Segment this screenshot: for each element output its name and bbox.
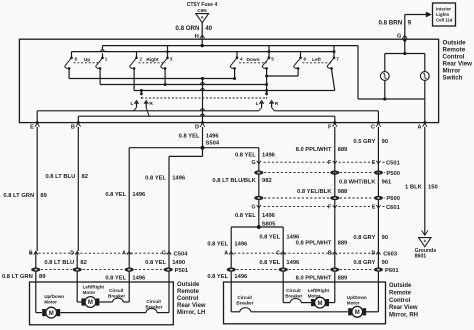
switch Right contact 3 [167,46,169,57]
svg-text:0.8 YEL: 0.8 YEL [235,213,256,219]
svg-text:0.8 BRN: 0.8 BRN [378,20,402,27]
svg-text:961: 961 [382,180,392,186]
svg-text:0.8 YEL: 0.8 YEL [105,275,126,281]
svg-text:Circuit: Circuit [109,288,124,293]
wires C504 to P501 [35,251,37,282]
svg-text:P601: P601 [385,268,399,274]
svg-text:1496: 1496 [234,274,248,280]
svg-text:Motor: Motor [347,301,360,306]
svg-text:B: B [71,125,75,131]
connector row C504 pins B D A C [34,251,38,254]
switch Left actuator dashes [303,62,333,64]
svg-text:1496: 1496 [234,241,248,247]
svg-text:5: 5 [271,57,274,62]
svg-text:1496: 1496 [286,234,300,240]
LH wire D to left/right motor [76,282,78,302]
svg-text:Remote: Remote [177,289,200,295]
svg-text:9: 9 [408,20,412,27]
svg-text:8601: 8601 [415,254,427,260]
svg-text:0.8 YEL: 0.8 YEL [179,133,200,139]
svg-text:Remote: Remote [389,291,412,297]
svg-text:C504: C504 [174,251,189,257]
selector 1 actuator [140,91,142,94]
wire F column [334,116,336,122]
svg-text:89: 89 [40,193,47,199]
splice S504 [201,146,205,150]
wire S805 left branch to RH A [231,226,259,228]
svg-text:Right: Right [146,57,159,63]
selector 2 contact stubs [261,104,263,108]
inline connector row P500 [254,171,263,175]
outside remote control rear view mirror switch box [19,39,438,122]
svg-text:Outside: Outside [443,39,467,46]
svg-text:Control: Control [177,296,199,302]
power bus lower [72,51,335,53]
svg-text:1 BLK: 1 BLK [405,185,423,191]
svg-text:L: L [130,101,133,107]
svg-text:0.8 YEL: 0.8 YEL [235,152,256,158]
wire D column (common output) [202,79,204,123]
svg-text:R: R [275,101,279,107]
svg-text:0.8 YEL: 0.8 YEL [259,260,280,266]
svg-text:Lights: Lights [436,12,450,17]
svg-text:82: 82 [82,174,88,180]
wire 0.8 BRN 9 to interior lights [405,14,426,16]
selector actuator link dashes [141,97,266,99]
svg-text:Control: Control [443,53,465,60]
svg-text:G: G [397,33,401,39]
wire Left-left arm jog to selector column [297,68,299,76]
wire S504 right branch to roof harness [203,147,259,149]
svg-text:Mirror, LH: Mirror, LH [177,310,205,316]
svg-text:1496: 1496 [262,152,276,158]
wires C603 to P601 [230,251,232,282]
illumination lamp right [424,54,426,72]
svg-text:3: 3 [170,57,173,62]
svg-text:P501: P501 [175,268,189,274]
wire D to splice S504 0.8 YEL 1496 [202,127,204,148]
selector 2 actuator (down-right arm column) [266,68,268,93]
svg-text:Mirror: Mirror [443,67,461,74]
svg-text:F: F [328,125,332,131]
svg-text:L: L [256,101,259,107]
svg-text:Left/Right: Left/Right [308,288,330,293]
svg-text:Rear View: Rear View [443,60,473,67]
svg-text:G: G [252,205,256,211]
svg-text:Rear View: Rear View [389,305,418,311]
svg-text:7: 7 [336,57,339,62]
svg-text:0.8 LT BLU: 0.8 LT BLU [45,174,75,180]
svg-text:0.8 GRY: 0.8 GRY [353,235,375,241]
svg-text:89: 89 [39,274,46,280]
LH wire breaker 2 to pin C [168,282,170,313]
wire B column [77,116,79,122]
wire Down-left arm riser [234,68,236,78]
splice S805 [257,225,261,229]
svg-text:Cell 114: Cell 114 [436,17,453,22]
svg-text:G: G [252,160,256,166]
LH wire motor to breaker 2 [60,312,146,314]
svg-text:M: M [318,301,323,307]
arrow into interior lights box [426,12,432,18]
svg-text:E: E [372,205,376,211]
wire B to C504-D 0.8 LT BLU 82 [77,127,79,251]
svg-text:8.0 PPL/WHT: 8.0 PPL/WHT [296,275,332,281]
wire Right-left arm to bus L3 [133,68,135,90]
svg-text:Circuit: Circuit [146,299,161,304]
svg-text:0.8 YEL: 0.8 YEL [105,192,126,198]
switch Up actuator dashes [74,62,101,64]
switch Up contact 8 [71,52,73,57]
LH wire motor to breaker 1 [99,301,112,303]
svg-text:0.8 WHT/BLK: 0.8 WHT/BLK [339,180,376,186]
svg-text:C501: C501 [386,160,401,166]
wire S805 right branch to RH C [259,226,283,228]
svg-text:6: 6 [304,57,307,62]
wire A to ground 1 BLK 150 [424,127,426,236]
svg-text:1496: 1496 [206,133,220,139]
wire F chain to RH 8.0 PPL/WHT 889 [334,127,336,251]
wire S504 down jog to C504-C [202,148,204,157]
bus L116 from B to F output [78,115,335,117]
svg-text:A: A [201,14,204,19]
lamp top rail from G [404,40,406,54]
switch box bottom pins E B D F C A [35,123,40,126]
svg-text:Down: Down [246,57,259,63]
LH wire breaker 1 to pin A [128,282,130,302]
svg-text:1496: 1496 [132,192,146,198]
wire A column (ground return) [424,99,426,123]
svg-text:0.8 YEL: 0.8 YEL [145,260,166,266]
svg-text:0.8 PPL/WHT: 0.8 PPL/WHT [296,241,332,247]
wire E column [36,111,38,123]
selector 1 contacts L R [134,101,138,104]
svg-text:S504: S504 [206,141,220,147]
svg-text:Circuit: Circuit [237,295,252,300]
svg-text:C601: C601 [386,205,401,211]
svg-text:4: 4 [240,57,243,62]
interior lights cell 114 box [433,3,456,26]
switch Up contact 1 [102,46,104,50]
bus L2 [100,84,267,86]
svg-text:82: 82 [80,260,86,266]
svg-text:0.5 GRY: 0.5 GRY [353,139,375,145]
switch Left contact 7 [333,46,335,57]
wire Up-left arm to bus L1 [68,68,70,78]
svg-text:Mirror, RH: Mirror, RH [389,312,418,318]
wire C column [377,111,379,123]
svg-text:1: 1 [105,57,108,62]
svg-text:0.8 GRY: 0.8 GRY [353,260,375,266]
svg-text:0.8 YEL: 0.8 YEL [207,241,228,247]
connector row C603 pins A C B D [229,251,233,254]
wire 0.8 ORN 40 from fuse to switch [201,22,203,45]
svg-text:R: R [149,101,153,107]
inline connector row P601 [227,268,236,272]
svg-text:988: 988 [338,189,348,195]
bus L1 common [69,78,235,80]
inline connector row P501 [31,268,40,272]
svg-text:0.8 YEL: 0.8 YEL [259,234,280,240]
wire C chain to RH GRY 90 [377,127,379,251]
svg-text:0.8 YEL: 0.8 YEL [145,176,166,182]
svg-text:90: 90 [382,235,388,241]
svg-text:1496: 1496 [172,176,186,182]
svg-text:Breaker: Breaker [285,293,302,298]
illumination feed riser [357,46,359,99]
svg-text:Rear View: Rear View [177,303,206,309]
svg-text:Outside: Outside [389,283,412,289]
svg-text:Breaker: Breaker [236,301,253,306]
svg-text:Remote: Remote [443,46,466,53]
svg-text:0.8 ORN: 0.8 ORN [175,25,200,32]
selector 1 contact stubs [136,104,138,108]
svg-text:0.8 LT BLU/BLK: 0.8 LT BLU/BLK [212,178,256,184]
svg-text:Motor: Motor [44,300,57,305]
svg-text:Circuit: Circuit [286,288,301,293]
ground symbol G8601 [422,230,428,235]
svg-text:P600: P600 [386,196,400,202]
RH wire A to breaker [230,282,232,312]
RH wire breaker to up/down motor [251,311,348,313]
outside remote control rear view mirror LH box [30,282,174,325]
svg-text:150: 150 [428,185,438,191]
switch Right contact 2 [136,52,138,57]
fuse connector triangle A [196,14,209,23]
outside remote control rear view mirror RH box [224,282,386,324]
svg-text:982: 982 [262,178,272,184]
RH wire C to breaker upper [282,282,284,303]
svg-text:2: 2 [140,57,143,62]
inline connector row P600 [254,196,263,200]
RH wire motor to pin D [366,311,378,313]
switch Down contact 5 [268,46,270,57]
svg-text:Motor: Motor [83,290,96,295]
svg-text:889: 889 [338,147,348,153]
svg-text:1496: 1496 [262,213,276,219]
wire Left-right arm riser [331,68,333,70]
LH wire B to up/down motor [35,282,37,313]
illumination lamp left [384,54,386,72]
svg-text:0.8 YEL/BLK: 0.8 YEL/BLK [297,189,332,195]
svg-text:0.8 LT GRN: 0.8 LT GRN [3,193,34,199]
svg-text:Outside: Outside [177,282,200,288]
svg-text:Up/Down: Up/Down [347,295,367,300]
svg-text:40: 40 [205,25,212,32]
svg-text:90: 90 [382,260,388,266]
svg-text:E: E [30,125,34,131]
bus L110 right from selector 2 R to C output [275,110,379,112]
svg-text:889: 889 [338,241,348,247]
svg-text:0.8 LT BLU: 0.8 LT BLU [44,260,74,266]
svg-text:1496: 1496 [286,260,300,266]
svg-text:889: 889 [338,275,348,281]
svg-text:F: F [328,160,331,166]
switch Left contact 6 [300,52,302,57]
svg-text:Up: Up [84,57,90,63]
svg-text:F: F [328,205,331,211]
svg-text:8: 8 [75,57,78,62]
svg-text:C603: C603 [383,251,398,257]
switch Down contact 4 [236,52,238,57]
svg-text:P500: P500 [386,171,400,177]
bus L3 [134,90,335,92]
svg-text:Switch: Switch [443,74,463,81]
svg-text:90: 90 [382,139,388,145]
wire E to C504-B 0.8 LT GRN 89 [36,127,38,251]
svg-text:Left: Left [312,57,321,63]
svg-text:D: D [195,125,199,131]
svg-text:8.0 PPL/WHT: 8.0 PPL/WHT [296,147,332,153]
svg-text:0.8 LT GRN: 0.8 LT GRN [2,274,33,280]
svg-text:Left/Right: Left/Right [83,284,105,289]
selector 2 contacts L R [259,101,263,104]
svg-text:C6N: C6N [197,8,207,13]
wire S504 left branch to C504-A [129,147,202,149]
switch Right actuator dashes [139,62,166,64]
RH wire motor to pin B [329,302,335,304]
bus L110 left from E to selector 2 L [37,110,259,112]
svg-text:Interior: Interior [436,6,451,11]
wire Right-right arm riser [164,68,166,84]
lamp bottom rail [358,98,425,100]
svg-text:M: M [49,311,54,317]
power bus upper (from H) [103,45,359,47]
svg-text:E: E [372,160,376,166]
svg-text:1490: 1490 [172,260,185,266]
svg-text:M: M [88,300,93,306]
svg-text:A: A [417,125,421,131]
wire Up-right arm riser to bus L2 [99,68,101,84]
svg-text:0.8 YEL: 0.8 YEL [207,274,228,280]
switch Down actuator dashes [239,62,267,64]
svg-text:M: M [355,310,360,316]
svg-text:C: C [371,125,375,131]
svg-text:1496: 1496 [132,275,146,281]
svg-text:Up/Down: Up/Down [44,294,64,299]
svg-text:Control: Control [389,298,411,304]
